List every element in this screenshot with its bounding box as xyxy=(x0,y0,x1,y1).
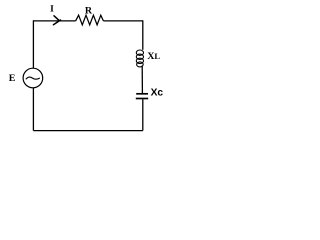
source E circle xyxy=(23,68,43,88)
source E sine wave xyxy=(26,77,40,79)
wire top-left segment xyxy=(33,20,75,22)
current arrowhead xyxy=(53,16,60,25)
capacitor top plate xyxy=(136,93,148,95)
inductor XL coil xyxy=(136,50,143,67)
svg-text:E: E xyxy=(9,73,16,84)
wire top-right segment xyxy=(103,20,142,22)
wire bottom xyxy=(33,130,142,132)
wire right upper (down to inductor) xyxy=(142,20,144,50)
svg-text:XL: XL xyxy=(147,51,160,62)
wire left lower xyxy=(32,88,34,131)
resistor R zigzag xyxy=(76,15,104,25)
wire right lower xyxy=(142,99,144,130)
svg-text:Xc: Xc xyxy=(151,88,164,99)
svg-text:R: R xyxy=(85,5,93,16)
svg-text:I: I xyxy=(50,5,54,15)
wire left upper xyxy=(32,20,34,68)
capacitor bottom plate xyxy=(136,98,148,100)
wire right middle (inductor to capacitor) xyxy=(141,66,143,94)
